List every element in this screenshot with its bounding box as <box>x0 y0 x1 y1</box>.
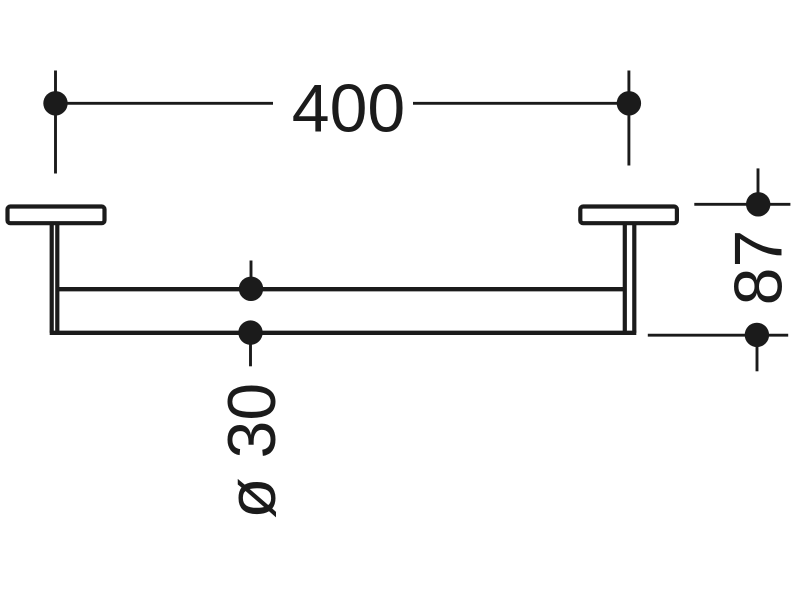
svg-text:87: 87 <box>721 230 797 306</box>
svg-text:ø 30: ø 30 <box>214 383 290 519</box>
svg-text:400: 400 <box>292 70 405 146</box>
